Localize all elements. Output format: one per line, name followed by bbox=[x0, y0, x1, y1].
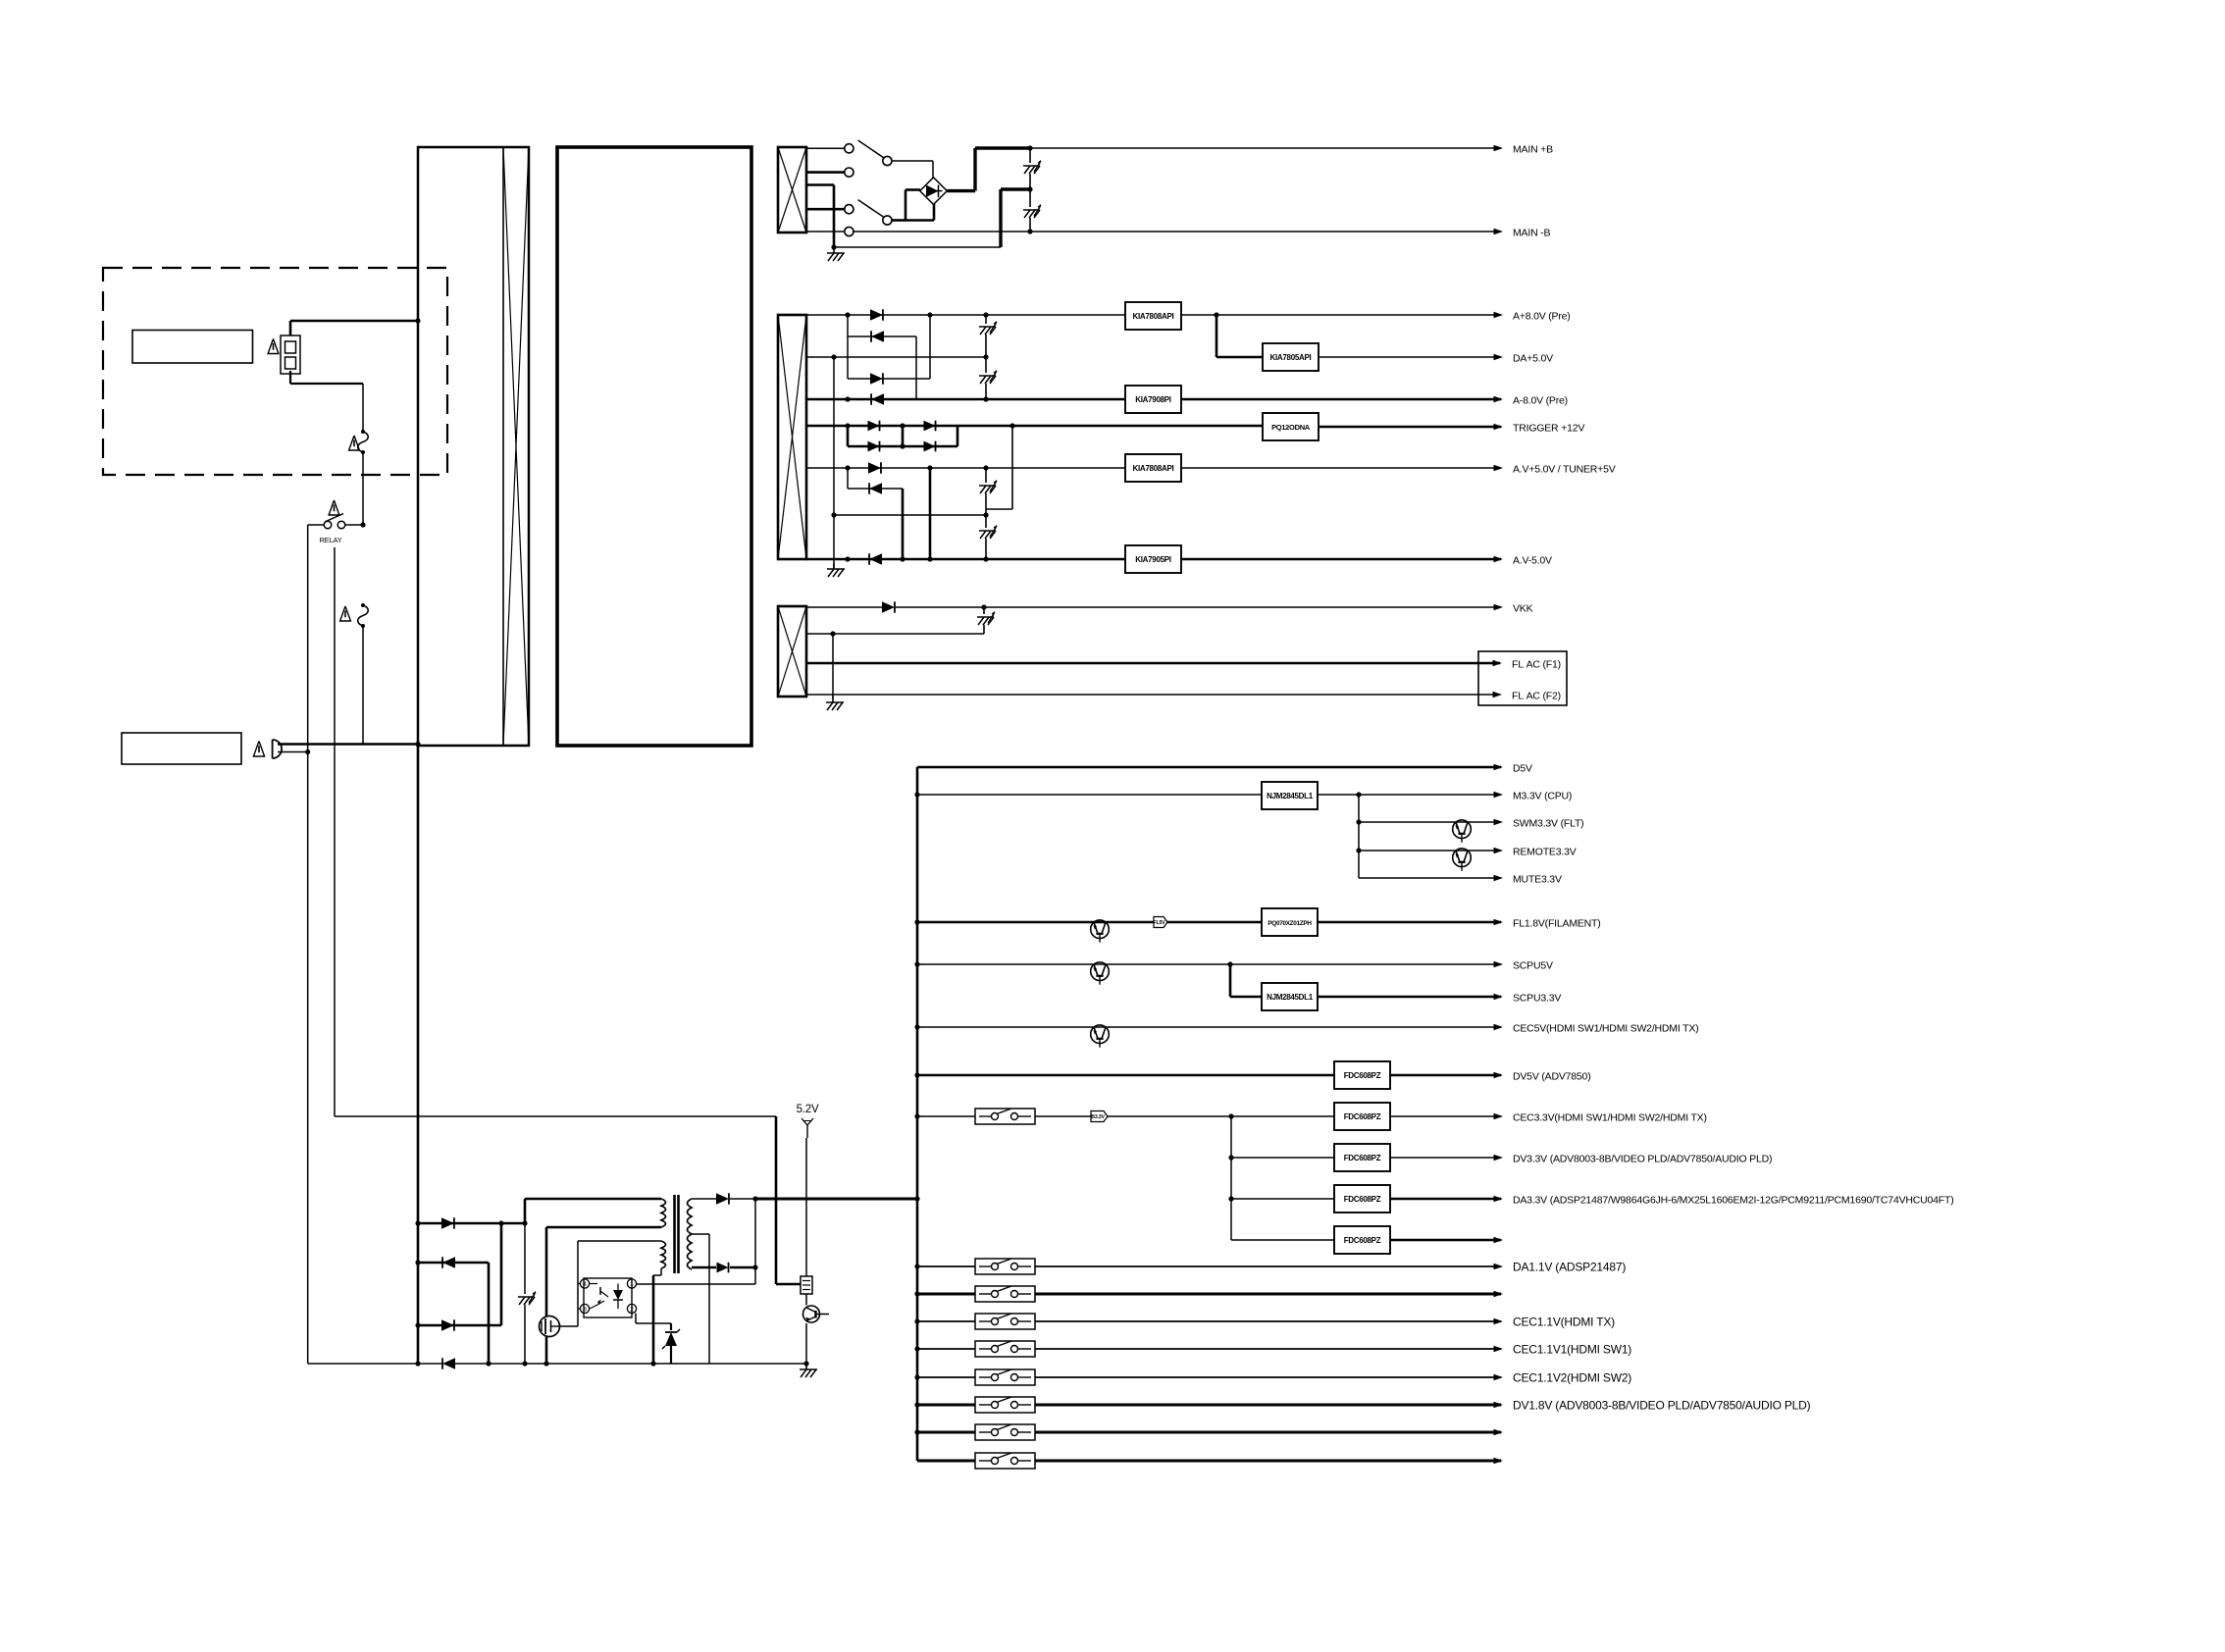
arrow A.V-5.0V bbox=[1494, 556, 1504, 563]
wire SCPU3.3V in bbox=[1230, 964, 1262, 997]
ground (standby) bbox=[800, 1364, 817, 1377]
arrow FL AC F1 bbox=[1493, 660, 1503, 667]
node bus row 5 bbox=[914, 1374, 919, 1379]
node relay-thermal junction bbox=[360, 522, 365, 527]
ground (winding C) bbox=[826, 697, 844, 710]
label FL AC (F2) bbox=[1512, 691, 1561, 702]
diode D26 bbox=[717, 1263, 756, 1273]
wire winding A lead 5 bbox=[806, 231, 845, 232]
wire winding B lead E bbox=[806, 398, 848, 401]
AC inlet plug P1 bbox=[273, 740, 418, 758]
wire DV3.3V out bbox=[1390, 1157, 1501, 1159]
svg-text:MUTE3.3V: MUTE3.3V bbox=[1513, 874, 1562, 886]
node SB4 bbox=[415, 1260, 420, 1265]
wire switched row 5 out bbox=[1035, 1376, 1501, 1378]
transformer T1 core box bbox=[557, 147, 751, 746]
ground (AC input) bbox=[827, 247, 845, 261]
transformer T21 primary coil bbox=[661, 1199, 666, 1227]
wire switched row 6 in bbox=[917, 1404, 975, 1407]
wire SWM3.3V bbox=[1359, 821, 1501, 823]
wire relay sense to standby bbox=[335, 1116, 801, 1284]
node SB7 bbox=[486, 1361, 491, 1366]
wire fuse bottom to thermal fuse bbox=[290, 371, 363, 432]
warning triangle (fuse) bbox=[268, 339, 279, 354]
svg-text:PQ12ODNA: PQ12ODNA bbox=[1271, 423, 1311, 432]
wire row B bbox=[848, 315, 916, 399]
arrow row 8 bbox=[1494, 1458, 1504, 1465]
svg-text:DA3.3V (ADSP21487/W9864G6JH-6/: DA3.3V (ADSP21487/W9864G6JH-6/MX25L1606E… bbox=[1513, 1195, 1954, 1207]
regulator U16 KIA7905PI bbox=[1125, 545, 1181, 573]
arrow FL AC F2 bbox=[1493, 692, 1503, 698]
svg-text:MAIN -B: MAIN -B bbox=[1513, 228, 1550, 239]
node C1 bbox=[831, 354, 836, 359]
switch S1 blade bbox=[858, 140, 892, 166]
FL AC callout box bbox=[1478, 651, 1567, 705]
terminal circle c3 bbox=[845, 205, 854, 214]
wire MOSFET source to rail bbox=[545, 1336, 548, 1364]
wire row F2 bbox=[848, 426, 957, 451]
arrow SWM3.3V bbox=[1494, 819, 1504, 826]
wire DV5V in bbox=[917, 1074, 1334, 1077]
wire return row bbox=[834, 514, 986, 516]
svg-text:FL1.8V(FILAMENT): FL1.8V(FILAMENT) bbox=[1513, 918, 1601, 930]
svg-text:CEC1.1V2(HDMI SW2): CEC1.1V2(HDMI SW2) bbox=[1513, 1371, 1631, 1385]
wire diode join vertical bbox=[754, 1199, 756, 1284]
svg-text:FDC608PZ: FDC608PZ bbox=[1344, 1112, 1381, 1121]
node bus SCPU5V bbox=[914, 961, 919, 966]
wire CEC3.3V in bbox=[917, 1115, 975, 1117]
node F2 bbox=[900, 423, 905, 428]
regulator U15 KIA7808API bbox=[1125, 454, 1181, 482]
wire primary bottom to MOSFET bbox=[546, 1227, 661, 1316]
svg-text:KIA7805API: KIA7805API bbox=[1270, 353, 1312, 362]
wire transistor emitter to rail bbox=[805, 1323, 807, 1364]
svg-text:FL5V: FL5V bbox=[1154, 920, 1166, 926]
node SB1 bbox=[415, 1220, 420, 1225]
wire D5V bbox=[917, 766, 1501, 769]
wire switched row 8 in bbox=[917, 1460, 975, 1463]
svg-text:KIA7808API: KIA7808API bbox=[1133, 312, 1174, 321]
arrow VKK bbox=[1494, 604, 1504, 611]
diode D16 bbox=[848, 553, 1125, 564]
node CEC3.3V junction bbox=[1228, 1113, 1233, 1118]
diode D13 bbox=[848, 421, 903, 432]
wire secondary center tap bbox=[692, 1234, 709, 1364]
label box (AC cord callout) bbox=[122, 733, 241, 764]
wire switched row 6 out bbox=[1035, 1404, 1501, 1407]
capacitor C21 bulk bbox=[518, 1223, 536, 1364]
node bus M3.3V bbox=[914, 792, 919, 797]
power bus vertical bbox=[916, 767, 919, 1461]
wire aux winding top lead bbox=[578, 1240, 661, 1242]
node REMOTE junction bbox=[1356, 848, 1361, 852]
arrow MAIN -B bbox=[1494, 229, 1504, 235]
warning triangle (relay) bbox=[329, 500, 339, 515]
thermal fuse TP1 squiggle bbox=[358, 430, 369, 454]
diode D25 bbox=[716, 1193, 755, 1204]
MOSFET Q21 bbox=[540, 1316, 560, 1337]
transistor Q23 bbox=[1453, 820, 1472, 843]
label DV3.3V bbox=[1513, 1154, 1772, 1165]
capacitor C13 bbox=[979, 468, 997, 515]
diode D12 bbox=[848, 393, 1125, 404]
switcher U28 FDC608PZ bbox=[1334, 1226, 1390, 1254]
arrow DA+5.0V bbox=[1494, 354, 1504, 361]
arrow A-8.0V bbox=[1494, 396, 1504, 403]
wire winding B lead C bbox=[806, 356, 986, 358]
wire switch to tag bbox=[1035, 1115, 1091, 1117]
wire FL1.8V in bbox=[917, 921, 1262, 924]
wire winding B lead G bbox=[806, 467, 848, 469]
regulator U22 PQ070XZ01ZPH bbox=[1262, 908, 1318, 936]
node MAIN +B junction bbox=[1027, 145, 1032, 150]
switch SW44 bbox=[975, 1341, 1035, 1357]
arrow A.V+5.0V bbox=[1494, 465, 1504, 472]
svg-text:FDC608PZ: FDC608PZ bbox=[1344, 1154, 1381, 1162]
arrow row 6 bbox=[1494, 1402, 1504, 1409]
wire AC live to bottom rail bbox=[417, 1325, 420, 1364]
node SWM junction bbox=[1356, 819, 1361, 824]
wire row H bbox=[848, 468, 903, 559]
transformer T1 winding B box bbox=[778, 315, 806, 559]
svg-text:FDC608PZ: FDC608PZ bbox=[1344, 1071, 1381, 1080]
node bus DV5V bbox=[914, 1072, 919, 1077]
svg-text:SCPU3.3V: SCPU3.3V bbox=[1513, 993, 1561, 1005]
wire M3.3V out bbox=[1318, 794, 1501, 796]
svg-text:NJM2845DL1: NJM2845DL1 bbox=[1267, 792, 1314, 800]
wire blank FDC in bbox=[1231, 1239, 1334, 1241]
label MAIN -B bbox=[1513, 228, 1550, 239]
connector CN21 bbox=[801, 1276, 812, 1294]
switch SW45 bbox=[975, 1369, 1035, 1385]
arrow SCPU5V bbox=[1494, 961, 1504, 968]
svg-text:A.V-5.0V: A.V-5.0V bbox=[1513, 555, 1552, 567]
node A1 bbox=[845, 312, 850, 317]
label M3.3V (CPU) bbox=[1513, 791, 1572, 802]
node bus row 4 bbox=[914, 1346, 919, 1351]
enclosure dashed box (primary compartment) bbox=[103, 268, 447, 475]
arrow row 7 bbox=[1494, 1429, 1504, 1436]
transformer T1 winding A X bbox=[778, 147, 806, 232]
node C2 bbox=[983, 354, 988, 359]
wire S2 to bridge bbox=[892, 190, 934, 221]
wire winding A lead 1 bbox=[806, 147, 845, 149]
svg-text:REMOTE3.3V: REMOTE3.3V bbox=[1513, 847, 1577, 858]
node A3 bbox=[983, 312, 988, 317]
svg-text:NJM2845DL1: NJM2845DL1 bbox=[1267, 993, 1314, 1002]
svg-text:DA1.1V (ADSP21487): DA1.1V (ADSP21487) bbox=[1513, 1261, 1626, 1274]
switcher U27 FDC608PZ bbox=[1334, 1185, 1390, 1213]
node plug-neutral junction bbox=[305, 749, 310, 754]
label A-8.0V (Pre) bbox=[1513, 395, 1568, 407]
svg-text:2: 2 bbox=[630, 1307, 634, 1314]
svg-text:RELAY: RELAY bbox=[319, 536, 341, 544]
wire AC live down (primary left edge) bbox=[417, 746, 420, 1223]
arrow M3.3V bbox=[1494, 792, 1504, 799]
optocoupler phototransistor bbox=[590, 1284, 608, 1310]
svg-text:SCPU5V: SCPU5V bbox=[1513, 960, 1553, 972]
svg-text:CEC1.1V(HDMI TX): CEC1.1V(HDMI TX) bbox=[1513, 1316, 1615, 1329]
svg-text:KIA7908PI: KIA7908PI bbox=[1135, 395, 1171, 404]
wire 3.3V feed vertical bbox=[1230, 1116, 1232, 1240]
arrow row 2 bbox=[1494, 1291, 1504, 1298]
wire DA3.3V in bbox=[1231, 1198, 1334, 1200]
wire bridge return thick bbox=[834, 189, 1030, 247]
wire A.V-5.0V output bbox=[1181, 558, 1501, 561]
wire winding A lead 4 bbox=[806, 208, 845, 211]
relay RY1 contact bbox=[308, 514, 363, 529]
label 5.2V bbox=[797, 1104, 819, 1115]
ground (winding B) bbox=[827, 563, 845, 577]
transformer T21 aux coil bbox=[661, 1241, 666, 1268]
label DV1.8V bbox=[1513, 1399, 1811, 1413]
transformer T1 winding B X bbox=[778, 315, 806, 559]
transformer T21 core bbox=[675, 1195, 679, 1273]
wire switched row 7 in bbox=[917, 1431, 975, 1434]
wire DV3.3V in bbox=[1231, 1157, 1334, 1159]
wire M3.3V in bbox=[917, 794, 1262, 796]
label MAIN +B bbox=[1513, 144, 1553, 156]
node I1 bbox=[845, 556, 850, 561]
transformer T1 winding C X bbox=[778, 606, 806, 697]
warning triangle (thermal fuse 2) bbox=[340, 606, 351, 621]
regulator U21 NJM2845DL1 bbox=[1262, 782, 1318, 809]
capacitor C12 bbox=[979, 357, 997, 399]
node SB13 bbox=[752, 1265, 757, 1269]
arrow DV3.3V bbox=[1494, 1155, 1504, 1162]
regulator U13 KIA7908PI bbox=[1125, 386, 1181, 413]
transformer T1 winding A box bbox=[778, 147, 806, 232]
wire 3.3V branch vertical bbox=[1358, 795, 1360, 878]
svg-text:TRIGGER +12V: TRIGGER +12V bbox=[1513, 423, 1584, 435]
svg-text:CEC1.1V1(HDMI SW1): CEC1.1V1(HDMI SW1) bbox=[1513, 1343, 1631, 1357]
wire switched row 1 in bbox=[917, 1265, 975, 1267]
svg-text:DV3.3V (ADV8003-8B/VIDEO PLD/A: DV3.3V (ADV8003-8B/VIDEO PLD/ADV7850/AUD… bbox=[1513, 1154, 1772, 1165]
wire fuse top to transformer bbox=[290, 321, 418, 336]
svg-text:FDC608PZ: FDC608PZ bbox=[1344, 1195, 1381, 1204]
label VKK bbox=[1513, 603, 1533, 615]
node SB10 bbox=[650, 1361, 655, 1366]
net tag B3.3V bbox=[1091, 1111, 1108, 1122]
wire switched row 2 in bbox=[917, 1293, 975, 1296]
arrow row 4 bbox=[1494, 1346, 1504, 1353]
wire FL1.8V out bbox=[1318, 921, 1501, 924]
svg-text:MAIN +B: MAIN +B bbox=[1513, 144, 1553, 156]
wire thermal fuse 2 down to primary bottom bbox=[362, 626, 364, 745]
optocoupler pin 1 bbox=[627, 1279, 636, 1288]
arrow SCPU3.3V bbox=[1494, 994, 1504, 1001]
label box (blank callout) bbox=[132, 331, 253, 364]
diode D15 bbox=[848, 462, 1125, 473]
wire switched row 8 out bbox=[1035, 1460, 1501, 1463]
label A.V-5.0V bbox=[1513, 555, 1552, 567]
svg-text:3: 3 bbox=[583, 1307, 587, 1314]
optocoupler LED bbox=[613, 1284, 623, 1310]
label SCPU3.3V bbox=[1513, 993, 1561, 1005]
wire pin1 to +rail bbox=[637, 1283, 755, 1285]
arrow DA3.3V bbox=[1494, 1196, 1504, 1203]
wire winding A lead 3 (to ground tap) bbox=[806, 185, 834, 248]
node A2 bbox=[927, 312, 932, 317]
wire switched row 2 out bbox=[1035, 1293, 1501, 1296]
wire DV5V out bbox=[1390, 1074, 1501, 1077]
wire winding C return ground bbox=[832, 634, 834, 698]
wire pin3 stub bbox=[578, 1308, 580, 1310]
arrow MAIN +B bbox=[1494, 145, 1504, 152]
wire thermal fuse to relay node bbox=[362, 452, 364, 525]
wire switched row 4 out bbox=[1035, 1348, 1501, 1350]
transformer T1 primary box bbox=[418, 147, 529, 746]
terminal circle c4 bbox=[845, 227, 854, 235]
transistor Q24 bbox=[1453, 849, 1472, 871]
wire 5.2V down to connector bbox=[805, 1138, 807, 1276]
switch SW47 bbox=[975, 1424, 1035, 1440]
bridge rectifier D1 diamond bbox=[920, 178, 948, 205]
wire winding B lead A bbox=[806, 314, 848, 316]
label CEC3.3V bbox=[1513, 1112, 1707, 1124]
svg-text:FL AC (F1): FL AC (F1) bbox=[1512, 659, 1561, 671]
node F3 bbox=[1009, 423, 1014, 428]
svg-text:A+8.0V (Pre): A+8.0V (Pre) bbox=[1513, 311, 1571, 323]
node bus FL1.8V bbox=[914, 919, 919, 924]
node VKK1 bbox=[981, 604, 986, 609]
node A4 bbox=[1214, 312, 1218, 317]
switch SW43 bbox=[975, 1314, 1035, 1329]
label FL1.8V(FILAMENT) bbox=[1513, 918, 1601, 930]
svg-text:CEC5V(HDMI SW1/HDMI SW2/HDMI T: CEC5V(HDMI SW1/HDMI SW2/HDMI TX) bbox=[1513, 1023, 1698, 1035]
wire winding C lead VKK bbox=[806, 606, 882, 608]
diode D11 bbox=[848, 309, 1125, 320]
transistor Q26 bbox=[1091, 962, 1110, 985]
wire winding B return down bbox=[833, 357, 835, 569]
transformer T21 secondary coil bbox=[688, 1199, 693, 1269]
net tag FL5V bbox=[1154, 917, 1167, 928]
diode D24 row4 on rail bbox=[442, 1358, 455, 1368]
transistor Q25 bbox=[1091, 920, 1110, 943]
node AC ground junction bbox=[831, 244, 836, 249]
capacitor C11 bbox=[979, 315, 997, 357]
wire secondary bottom lead bbox=[692, 1266, 716, 1269]
wire switched row 3 in bbox=[917, 1320, 975, 1322]
wire SCPU3.3V out bbox=[1318, 996, 1501, 999]
switch S2 blade bbox=[858, 200, 892, 225]
wire F to PQ120DNA bbox=[1012, 425, 1263, 428]
arrow MUTE3.3V bbox=[1494, 875, 1504, 882]
wire CEC3.3V out bbox=[1390, 1115, 1501, 1117]
optocoupler pin 3 bbox=[580, 1304, 589, 1313]
warning triangle (thermal fuse 1) bbox=[349, 436, 360, 450]
label FL AC (F1) bbox=[1512, 659, 1561, 671]
node bus row 2 bbox=[914, 1291, 919, 1296]
wire VKK bbox=[984, 606, 1501, 608]
wire A+8.0V output bbox=[1181, 314, 1501, 316]
node C3 bbox=[831, 512, 836, 517]
wire winding C return bbox=[806, 633, 984, 635]
diode D17 bbox=[882, 601, 984, 612]
capacitor C2 to chassis bbox=[1023, 189, 1041, 232]
label MUTE3.3V bbox=[1513, 874, 1562, 886]
wire DA+5.0V output bbox=[1319, 356, 1501, 358]
switch SW41 bbox=[975, 1259, 1035, 1274]
node M3.3V junction bbox=[1356, 792, 1361, 797]
label CEC5V bbox=[1513, 1023, 1698, 1035]
node SB11 bbox=[752, 1196, 757, 1201]
arrow FL1.8V bbox=[1494, 919, 1504, 926]
node G1 bbox=[845, 465, 850, 470]
wire pin2 to zener bbox=[636, 1314, 671, 1330]
arrow blank FDC bbox=[1494, 1237, 1504, 1244]
svg-text:D5V: D5V bbox=[1513, 763, 1532, 775]
wire to KIA7805API bbox=[1216, 315, 1263, 357]
capacitor C1 to chassis bbox=[1023, 148, 1041, 189]
svg-text:DA+5.0V: DA+5.0V bbox=[1513, 353, 1553, 365]
node SB5 bbox=[415, 1322, 420, 1327]
wire S1 to bridge bbox=[892, 161, 933, 178]
diode D23 row3 bbox=[418, 1223, 501, 1331]
wire relay coil sense down bbox=[334, 547, 336, 1116]
node MAIN -B junction bbox=[1027, 229, 1032, 233]
wire switched row 5 in bbox=[917, 1376, 975, 1378]
wire winding A lead 2 bbox=[806, 171, 845, 174]
transistor Q27 bbox=[1091, 1025, 1110, 1048]
label SWM3.3V (FLT) bbox=[1513, 818, 1583, 830]
wire bridge + output to MAIN +B rail bbox=[947, 148, 1030, 191]
transistor Q22 bbox=[803, 1306, 830, 1322]
wire CEC5V bbox=[917, 1026, 1501, 1028]
arrow REMOTE3.3V bbox=[1494, 848, 1504, 854]
wire connector to transistor bbox=[805, 1294, 807, 1306]
label DA3.3V bbox=[1513, 1195, 1954, 1207]
label DV5V (ADV7850) bbox=[1513, 1071, 1591, 1083]
wire pin4 stub bbox=[578, 1283, 580, 1285]
arrow row 3 bbox=[1494, 1318, 1504, 1325]
wire A.V+5.0V output bbox=[1181, 467, 1501, 469]
wire MUTE3.3V bbox=[1359, 877, 1501, 879]
wire F3 cap drop bbox=[986, 426, 1012, 509]
wire winding B lead I bbox=[806, 558, 848, 561]
wire switched row 7 out bbox=[1035, 1431, 1501, 1434]
svg-text:B3.3V: B3.3V bbox=[1091, 1114, 1105, 1120]
label DA+5.0V bbox=[1513, 353, 1553, 365]
arrow CEC5V bbox=[1494, 1024, 1504, 1031]
arrow D5V bbox=[1494, 764, 1504, 771]
svg-text:FDC608PZ: FDC608PZ bbox=[1344, 1236, 1381, 1245]
arrow TRIGGER +12V bbox=[1494, 424, 1504, 431]
node bus row 6 bbox=[914, 1402, 919, 1407]
node bus row 1 bbox=[914, 1264, 919, 1268]
svg-text:M3.3V (CPU): M3.3V (CPU) bbox=[1513, 791, 1572, 802]
node bus CEC3.3V bbox=[914, 1113, 919, 1118]
node SCPU junction bbox=[1227, 961, 1232, 966]
svg-text:KIA7808API: KIA7808API bbox=[1133, 464, 1174, 473]
node SB9 bbox=[543, 1361, 548, 1366]
wire TRIGGER +12V output bbox=[1319, 426, 1501, 429]
wire tag to FDC bbox=[1108, 1115, 1334, 1117]
diode D21 row1 bbox=[418, 1217, 525, 1228]
node bus row 3 bbox=[914, 1318, 919, 1323]
node I3 bbox=[983, 556, 988, 561]
capacitor C14 bbox=[979, 515, 997, 559]
svg-text:4: 4 bbox=[583, 1281, 587, 1288]
wire rectified+ to primary top bbox=[525, 1199, 661, 1223]
node plug-primary junction bbox=[415, 742, 420, 747]
wire relay left down to AC inlet bbox=[307, 525, 309, 1364]
svg-text:VKK: VKK bbox=[1513, 603, 1533, 615]
transformer T1 primary X bbox=[503, 147, 529, 746]
wire 5.2V rail to bus bbox=[755, 1198, 917, 1201]
label CEC1.1V1(HDMI bbox=[1513, 1343, 1631, 1357]
regulator U11 KIA7808API bbox=[1125, 302, 1181, 330]
